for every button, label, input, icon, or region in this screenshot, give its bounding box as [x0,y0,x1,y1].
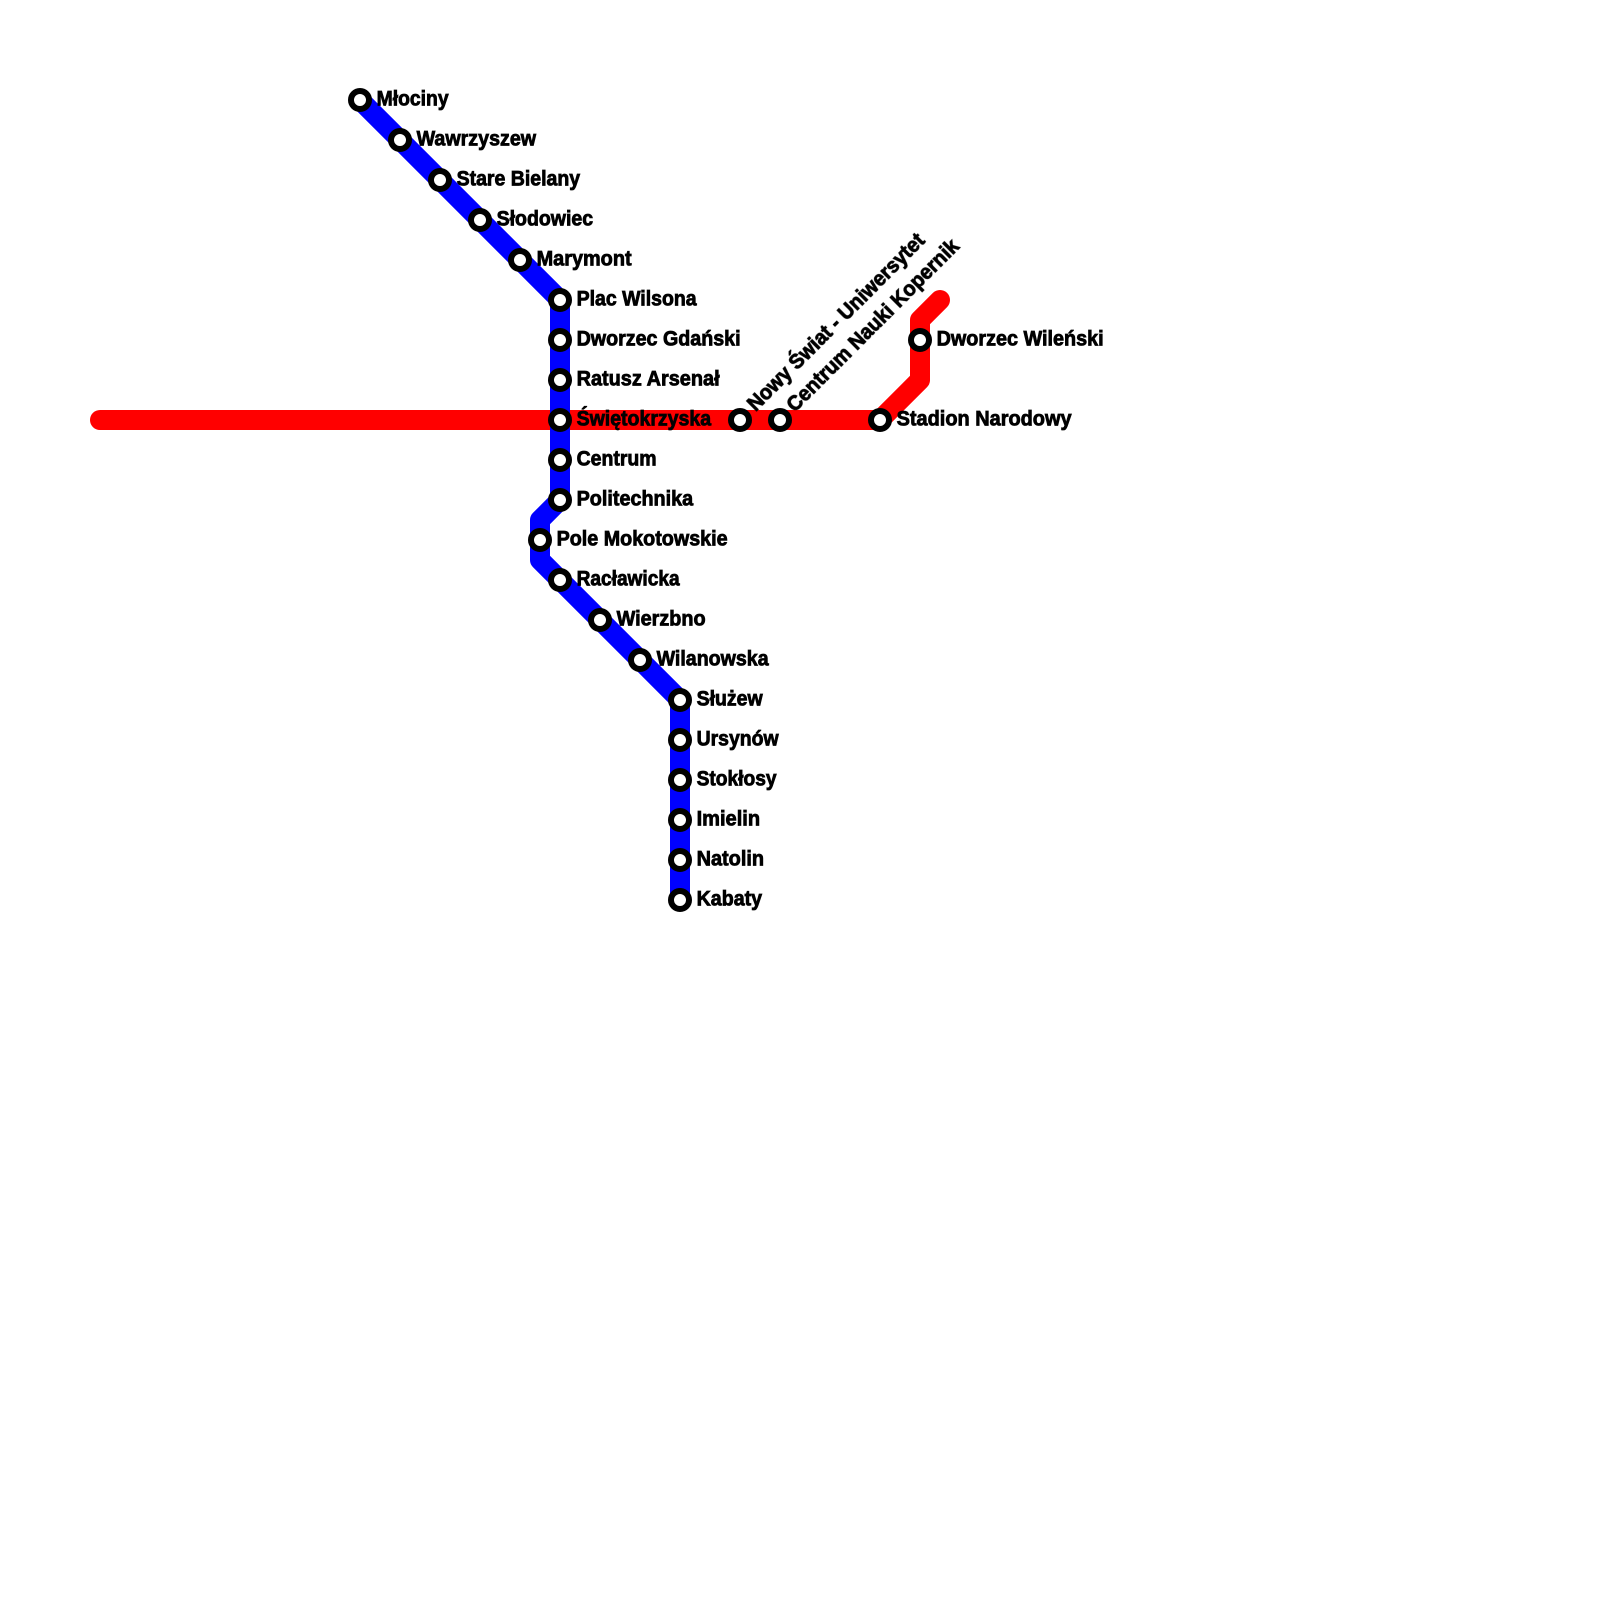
svg-text:Racławicka: Racławicka [577,568,680,591]
svg-text:Wawrzyszew: Wawrzyszew [417,128,537,151]
svg-text:Centrum: Centrum [577,448,657,471]
svg-text:Marymont: Marymont [537,248,632,271]
station Suzew [671,691,689,709]
svg-text:Ursynów: Ursynów [697,728,780,751]
station Marymont [511,251,529,269]
svg-text:Dworzec Wileński: Dworzec Wileński [937,328,1104,351]
station Centrum [551,451,569,469]
line M2 red: west terminus to Dworzec Wilenski [100,300,940,420]
svg-text:Imielin: Imielin [697,808,761,831]
svg-text:Kabaty: Kabaty [697,888,763,911]
svg-text:Młociny: Młociny [377,88,449,111]
station Politechnika [551,491,569,509]
svg-text:Stare Bielany: Stare Bielany [457,168,581,191]
station Dworzec Gdanski [551,331,569,349]
station Kabaty [671,891,689,909]
svg-text:Słodowiec: Słodowiec [497,208,594,231]
svg-text:Dworzec Gdański: Dworzec Gdański [577,328,741,351]
svg-text:Wierzbno: Wierzbno [617,608,706,631]
station Stare Bielany [431,171,449,189]
svg-text:Plac Wilsona: Plac Wilsona [577,288,697,311]
line M1 blue: Mlociny to Kabaty [360,100,680,900]
station Centrum Nauki Kopernik (rotated label) [771,411,789,429]
svg-text:Natolin: Natolin [697,848,765,871]
station Stoklosy [671,771,689,789]
station Slodowiec [471,211,489,229]
svg-text:Świętokrzyska: Świętokrzyska [577,407,712,431]
svg-text:Wilanowska: Wilanowska [657,648,769,671]
station Raclawicka [551,571,569,589]
station Pole Mokotowskie [531,531,549,549]
station Ratusz Arsenal [551,371,569,389]
svg-text:Ratusz Arsenał: Ratusz Arsenał [577,368,720,391]
station Wierzbno [591,611,609,629]
station Stadion Narodowy [871,411,889,429]
station Plac Wilsona [551,291,569,309]
svg-text:Służew: Służew [697,688,764,711]
station Nowy Swiat - Uniwersytet [731,411,749,429]
station Dworzec Wilenski [911,331,929,349]
station Natolin [671,851,689,869]
svg-text:Stokłosy: Stokłosy [697,768,777,791]
station Ursynow [671,731,689,749]
svg-text:Politechnika: Politechnika [577,488,694,511]
station Imielin [671,811,689,829]
station Wawrzyszew [391,131,409,149]
station Wilanowska [631,651,649,669]
svg-text:Stadion Narodowy: Stadion Narodowy [897,408,1072,431]
station Mlociny [351,91,369,109]
station Swietokrzyska [551,411,569,429]
svg-text:Pole Mokotowskie: Pole Mokotowskie [557,528,728,551]
